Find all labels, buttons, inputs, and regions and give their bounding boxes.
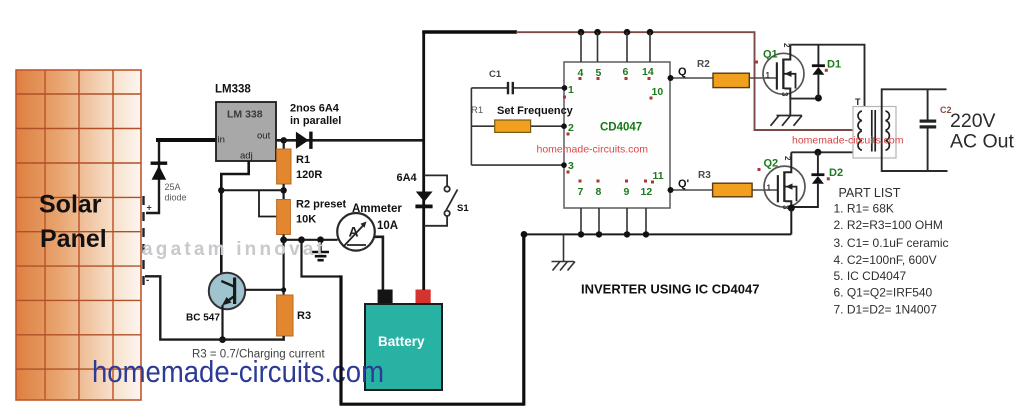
pin numbers left <box>568 84 574 172</box>
wire: sense rail to ammeter <box>284 239 338 241</box>
svg-text:S1: S1 <box>457 203 469 214</box>
svg-text:LM 338: LM 338 <box>227 109 263 121</box>
pad Q1 <box>755 61 758 64</box>
battery <box>365 290 442 391</box>
pin numbers bottom <box>578 186 653 198</box>
svg-text:R3: R3 <box>297 310 311 322</box>
svg-text:INVERTER USING IC CD4047: INVERTER USING IC CD4047 <box>581 282 759 297</box>
svg-text:25A: 25A <box>165 182 181 192</box>
pin pads left <box>563 96 570 174</box>
junction: adj node on R1-R2 link <box>280 187 286 193</box>
svg-text:12: 12 <box>641 186 653 198</box>
wire: pin1 line with C1 <box>471 87 564 89</box>
svg-text:Solar: Solar <box>39 191 102 219</box>
svg-text:R1: R1 <box>471 105 483 116</box>
pin pads top <box>579 77 651 80</box>
junction: Q' pin11 <box>668 187 674 193</box>
IC U1 CD4047 <box>564 62 670 208</box>
svg-text:LM338: LM338 <box>215 84 251 96</box>
svg-text:3. C1= 0.1uF ceramic: 3. C1= 0.1uF ceramic <box>834 236 949 250</box>
svg-text:R2 preset: R2 preset <box>296 199 346 211</box>
pin digits Q2 <box>767 156 793 210</box>
wire: Q' output to Q2 gate <box>671 189 779 191</box>
svg-text:Battery: Battery <box>378 334 425 349</box>
junction: R2 bottom <box>280 236 287 243</box>
junction: rail to battery minus branch <box>298 236 305 243</box>
resistor R2 preset 10K <box>277 200 291 235</box>
diode 6A4 on battery line <box>415 192 432 209</box>
wire: bottom ground rail <box>340 403 524 406</box>
svg-text:5. IC CD4047: 5. IC CD4047 <box>834 269 907 283</box>
svg-text:homemade-circuits.com: homemade-circuits.com <box>537 144 649 156</box>
svg-text:6: 6 <box>623 66 629 78</box>
wire: Q1 source node <box>790 98 818 100</box>
svg-text:in: in <box>218 135 225 146</box>
transformer T <box>853 97 896 158</box>
resistor R3 gate <box>713 183 753 197</box>
svg-text:120R: 120R <box>296 169 322 181</box>
regulator LM338 <box>216 102 276 162</box>
wire: R3 bottom stub <box>283 336 285 341</box>
pin 8 stub <box>598 208 600 234</box>
ammeter M1 <box>337 213 375 251</box>
pin 7 stub <box>580 208 582 234</box>
svg-text:Set Frequency: Set Frequency <box>497 105 574 117</box>
pad D1 <box>825 69 828 72</box>
capacitor C1 <box>507 82 509 94</box>
svg-text:2: 2 <box>568 122 574 134</box>
wire: R1 to R2 link <box>283 184 285 200</box>
switch S1 <box>424 175 458 225</box>
svg-text:R2: R2 <box>697 59 710 70</box>
wire: Q1 drain to transformer top <box>790 45 864 111</box>
junction: emitter on bottom wire <box>219 336 226 343</box>
wire: R2 bottom to sense rail <box>283 235 285 241</box>
resistor R3 <box>277 295 293 336</box>
svg-text:2: 2 <box>782 43 791 48</box>
bus: battery+ maroon feed to transformer center tap <box>516 32 867 130</box>
pin numbers top <box>578 66 654 79</box>
junction: adj branch <box>218 187 224 193</box>
svg-text:10A: 10A <box>377 220 398 232</box>
svg-text:D1: D1 <box>827 59 841 71</box>
pin 12 stub <box>645 208 647 234</box>
svg-text:9: 9 <box>624 186 630 198</box>
svg-text:T: T <box>855 97 861 107</box>
svg-text:10: 10 <box>652 86 664 98</box>
junction: pin9 gnd <box>624 231 630 237</box>
wire: secondary loop <box>882 89 948 171</box>
svg-text:2nos 6A4: 2nos 6A4 <box>290 103 340 115</box>
junction: Q1 source / D1 anode <box>815 95 822 102</box>
mosfet Q2 IRF540 <box>764 152 805 208</box>
chassis ground (Q1) <box>771 116 803 126</box>
svg-text:agatam innovat: agatam innovat <box>142 239 326 260</box>
svg-text:R1: R1 <box>296 154 310 166</box>
junction: bus pin14 <box>647 29 654 36</box>
svg-text:Q2: Q2 <box>764 158 779 170</box>
junction: D2 top <box>814 149 821 156</box>
part list <box>834 186 949 317</box>
svg-text:-: - <box>146 275 149 286</box>
svg-text:AC Out: AC Out <box>950 131 1015 153</box>
svg-text:6A4: 6A4 <box>397 172 418 184</box>
diode D2 <box>791 152 824 207</box>
wire: pin2 line with R1 <box>471 125 564 127</box>
wire: rail down to battery- bottom rail <box>302 240 341 277</box>
svg-text:7: 7 <box>578 186 584 198</box>
wire: Q output to Q1 gate <box>671 77 778 79</box>
svg-text:1. R1= 68K: 1. R1= 68K <box>834 202 894 216</box>
bus: ground under IC <box>524 233 791 235</box>
junction: out node <box>281 137 287 143</box>
wire: RC left bus <box>470 88 472 165</box>
chassis ground (IC) <box>552 234 576 270</box>
wire: panel- to bottom sense wire <box>145 276 284 339</box>
svg-text:diode: diode <box>165 193 187 203</box>
svg-text:7. D1=D2= 1N4007: 7. D1=D2= 1N4007 <box>834 303 938 317</box>
junction: pin8 gnd <box>596 231 602 237</box>
svg-text:out: out <box>257 131 271 142</box>
svg-text:D2: D2 <box>829 167 843 179</box>
pin 6 stub <box>626 32 628 62</box>
svg-text:C1: C1 <box>489 69 502 80</box>
solar panel <box>16 70 144 400</box>
svg-text:Ammeter: Ammeter <box>352 203 402 215</box>
junction: rail ground stub <box>317 236 324 243</box>
pin 14 stub <box>649 32 651 62</box>
junction: Q2 source <box>788 205 795 212</box>
wire: Q2 drain to transformer bottom <box>791 151 867 153</box>
svg-text:R3: R3 <box>698 170 711 181</box>
wire: LM338 out to battery+ line <box>276 139 425 142</box>
resistor R1 120R <box>277 149 291 184</box>
svg-text:2: 2 <box>783 156 792 161</box>
mosfet Q1 IRF540 <box>763 45 804 99</box>
pad Q2 <box>758 168 761 171</box>
wire: out node to R1 <box>283 140 285 150</box>
svg-text:8: 8 <box>596 186 602 198</box>
transistor Q1 BC547 <box>209 273 284 341</box>
wire: Q1 source to ground <box>789 99 791 116</box>
resistor R2 gate <box>713 73 749 87</box>
junction: pin2 <box>561 123 567 129</box>
pin pads right <box>650 97 655 184</box>
svg-text:4. C2=100nF, 600V: 4. C2=100nF, 600V <box>834 253 937 267</box>
pin numbers right <box>652 86 664 182</box>
svg-text:1: 1 <box>767 184 772 193</box>
pin digits Q1 <box>766 43 792 97</box>
pad D2 <box>827 177 830 180</box>
svg-text:PART LIST: PART LIST <box>839 186 901 200</box>
svg-text:homemade-circuits.com: homemade-circuits.com <box>792 135 904 147</box>
diode 6A4 series (2nos in parallel) <box>296 132 313 149</box>
junction: pin1 <box>562 85 568 91</box>
svg-text:adj: adj <box>240 151 253 162</box>
wire: thick feed into LM338 in <box>156 138 217 142</box>
pin 4 stub <box>580 32 582 62</box>
svg-text:2. R2=R3=100 OHM: 2. R2=R3=100 OHM <box>834 218 943 232</box>
wire: adj pin down-left and to transistor collector <box>221 161 248 274</box>
svg-text:Q': Q' <box>678 178 690 190</box>
resistor R1 set frequency <box>495 120 531 132</box>
wire: R2R3 node down to R3 <box>283 240 285 296</box>
svg-text:14: 14 <box>642 66 654 78</box>
wire: ammeter to battery minus terminal <box>375 237 383 291</box>
svg-text:+: + <box>147 203 152 213</box>
svg-text:3: 3 <box>568 160 574 172</box>
svg-text:1: 1 <box>766 71 771 80</box>
diode 25A <box>151 162 168 180</box>
svg-text:220V: 220V <box>950 110 996 132</box>
svg-text:CD4047: CD4047 <box>600 122 642 134</box>
junction: pin7 gnd <box>578 231 584 237</box>
pin pads bottom <box>579 180 648 183</box>
wire: thick top bus segment <box>422 30 517 34</box>
junction: pin3 <box>561 162 567 168</box>
svg-text:in parallel: in parallel <box>290 115 341 127</box>
junction: pin12 gnd <box>643 231 649 237</box>
svg-text:10K: 10K <box>296 214 316 226</box>
junction: Q pin10 <box>668 75 674 81</box>
junction: bus pin4 <box>578 29 585 36</box>
wire: Q2 source to ground bus <box>790 208 792 234</box>
earth ground (charger rail) <box>312 240 329 260</box>
wire: pin3 line <box>471 164 564 166</box>
svg-text:3: 3 <box>780 92 789 97</box>
svg-text:Q1: Q1 <box>763 49 778 61</box>
svg-text:Panel: Panel <box>40 225 107 253</box>
wire: adj branch to R1-R2 node <box>221 189 283 191</box>
capacitor C2 <box>920 89 937 171</box>
svg-text:Q: Q <box>678 66 687 78</box>
pin 9 stub <box>626 208 628 234</box>
svg-text:1: 1 <box>568 84 574 96</box>
wire: battery+ main vertical line <box>422 31 425 290</box>
pin 5 stub <box>597 32 599 62</box>
wire: ground bus drop to bottom rail <box>522 234 525 405</box>
svg-text:BC 547: BC 547 <box>186 313 220 324</box>
junction: bus pin5 <box>594 29 601 36</box>
svg-text:6. Q1=Q2=IRF540: 6. Q1=Q2=IRF540 <box>834 286 933 300</box>
svg-text:11: 11 <box>653 170 664 182</box>
wire: panel+ to 25A diode <box>146 140 159 213</box>
diode D1 <box>812 45 825 98</box>
wire: thick battery- drop <box>339 275 342 404</box>
junction: base node <box>281 287 286 292</box>
junction: ground bus corner <box>521 231 528 238</box>
wire: R2 preset wiper <box>259 190 277 216</box>
junction: bus pin6 <box>624 29 631 36</box>
